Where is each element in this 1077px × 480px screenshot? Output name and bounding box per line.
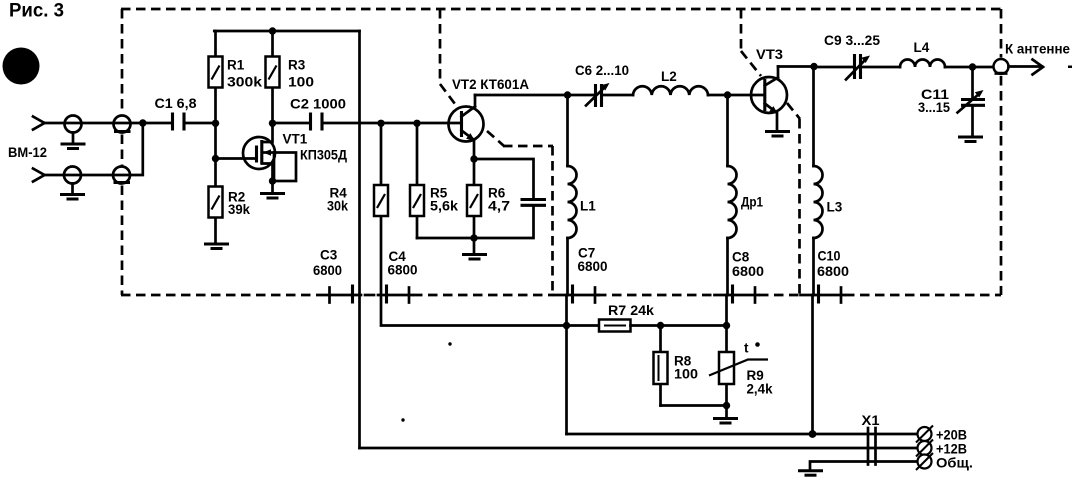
node R5 top bbox=[413, 120, 420, 127]
capacitor C10 6800 (feedthrough) bbox=[801, 249, 850, 304]
resistor R7 24k bbox=[567, 303, 727, 332]
ground bbox=[798, 471, 823, 476]
svg-text:R1: R1 bbox=[227, 58, 245, 73]
node collector tank bbox=[564, 91, 571, 98]
wire R8/R9 bottom bbox=[661, 406, 727, 417]
wire VT3 collector bbox=[778, 65, 814, 68]
node VT2 emitter bbox=[470, 155, 477, 162]
svg-text:100: 100 bbox=[674, 367, 698, 382]
wire R5/R6 common to ground bbox=[417, 238, 474, 252]
resistor R1 300k bbox=[209, 31, 263, 123]
speck bbox=[1068, 66, 1072, 69]
speck bbox=[448, 342, 451, 345]
wire gate branch bbox=[216, 157, 257, 160]
transistor VT3 bbox=[751, 47, 787, 129]
capacitor C11 3...15 (trimmer) bbox=[918, 67, 985, 135]
terminal +20В bbox=[916, 426, 967, 443]
svg-text:VT2 КТ601А: VT2 КТ601А bbox=[452, 77, 529, 92]
svg-text:L3: L3 bbox=[827, 200, 843, 215]
svg-text:С1 6,8: С1 6,8 bbox=[155, 96, 198, 111]
shield enclosure (outer dashed box) bbox=[121, 9, 1001, 295]
ground bbox=[958, 137, 983, 142]
resistor R5 5,6k bbox=[410, 123, 459, 238]
wire +12V bus bbox=[360, 447, 918, 450]
node emitter network ground bbox=[470, 234, 477, 241]
svg-text:С9 3...25: С9 3...25 bbox=[824, 33, 880, 48]
ground bbox=[462, 255, 487, 260]
svg-text:ВМ-12: ВМ-12 bbox=[8, 144, 47, 160]
capacitor C3 6800 (feedthrough) bbox=[313, 248, 361, 304]
node rail/R3 bbox=[269, 27, 276, 34]
ground bbox=[765, 132, 790, 137]
svg-text:Др1: Др1 bbox=[741, 195, 763, 210]
svg-text:3...15: 3...15 bbox=[918, 100, 950, 115]
connector socket top-left bbox=[65, 116, 82, 143]
node collector output bbox=[810, 63, 817, 70]
svg-text:100: 100 bbox=[288, 75, 314, 90]
inductor L2 bbox=[633, 69, 728, 95]
shield partition through VT3 (dashed) bbox=[741, 9, 800, 295]
wire common bus bbox=[810, 462, 918, 470]
wire R4 column to R7 node bbox=[381, 295, 567, 326]
svg-text:6800: 6800 bbox=[732, 264, 764, 279]
node B (drain/R3/C2) bbox=[269, 120, 276, 127]
transistor VT2 КТ601А bbox=[449, 77, 530, 159]
svg-text:Общ.: Общ. bbox=[936, 456, 973, 471]
inductor L3 bbox=[813, 67, 843, 435]
capacitor C7 6800 (feedthrough) bbox=[555, 246, 608, 304]
wire +12V rail (top) bbox=[214, 30, 359, 33]
resistor R4 30k bbox=[327, 123, 388, 295]
node gate branch bbox=[212, 155, 219, 162]
ground bbox=[713, 419, 738, 424]
node source bbox=[269, 177, 276, 184]
capacitor C8 6800 (feedthrough) bbox=[715, 250, 765, 304]
svg-text:L2: L2 bbox=[661, 69, 677, 84]
terminal +12В bbox=[916, 440, 967, 457]
shield partition through VT2 (dashed) bbox=[440, 9, 553, 295]
terminal Общ. bbox=[916, 453, 973, 471]
svg-text:5,6k: 5,6k bbox=[430, 199, 459, 214]
svg-text:30k: 30k bbox=[327, 199, 348, 214]
svg-text:С3: С3 bbox=[320, 248, 338, 263]
svg-text:6800: 6800 bbox=[817, 264, 849, 279]
svg-text:R7 24k: R7 24k bbox=[608, 303, 655, 318]
connector plug bottom-right bbox=[113, 167, 130, 184]
svg-text:VT1: VT1 bbox=[283, 132, 308, 147]
svg-text:R3: R3 bbox=[288, 58, 306, 73]
resistor R6 4,7 bbox=[467, 159, 510, 238]
node input junction bbox=[139, 119, 146, 126]
svg-text:КП305Д: КП305Д bbox=[300, 148, 347, 163]
node R8 top bbox=[657, 322, 664, 329]
node C11 tap bbox=[969, 63, 976, 70]
wire +20V bus bbox=[567, 433, 918, 436]
connector socket bottom-left bbox=[64, 167, 81, 194]
capacitor C2 1000 bbox=[273, 97, 462, 131]
svg-text:4,7: 4,7 bbox=[488, 199, 510, 214]
speck bbox=[401, 418, 404, 421]
thermistor R9 2,4k bbox=[709, 326, 773, 406]
ground bbox=[60, 195, 85, 200]
connector X1 bbox=[862, 413, 881, 465]
capacitor C4 6800 (feedthrough) bbox=[365, 249, 418, 304]
svg-text:VT3: VT3 bbox=[756, 47, 784, 62]
node L3 column on +20V bus bbox=[809, 430, 817, 438]
transistor VT1 КП305Д bbox=[243, 123, 347, 181]
capacitor C1 6,8 bbox=[143, 96, 216, 131]
inductor L4 bbox=[900, 40, 994, 67]
node R9 top bbox=[723, 322, 730, 329]
node R9 ground bbox=[723, 402, 730, 409]
input arrow top bbox=[33, 117, 45, 130]
resistor R8 100 bbox=[654, 326, 699, 406]
ground bbox=[61, 144, 86, 149]
svg-text:6800: 6800 bbox=[578, 259, 608, 274]
svg-text:С10: С10 bbox=[818, 249, 841, 264]
input arrow bottom bbox=[33, 169, 45, 182]
ground bbox=[204, 244, 229, 249]
svg-text:L1: L1 bbox=[580, 199, 596, 214]
wire C7 column down to +20V bus bbox=[565, 295, 568, 434]
inductor Др1 (choke) bbox=[727, 95, 764, 326]
svg-text:К антенне: К антенне bbox=[1005, 42, 1070, 57]
svg-text:2,4k: 2,4k bbox=[747, 382, 773, 397]
resistor R2 39k bbox=[209, 123, 251, 242]
wire input bottom bbox=[45, 123, 143, 175]
node R7 left bbox=[563, 322, 570, 329]
inductor L1 bbox=[568, 95, 597, 295]
svg-text:t: t bbox=[744, 341, 749, 356]
wire VT2 collector bbox=[475, 94, 568, 97]
svg-text:6800: 6800 bbox=[313, 263, 342, 278]
wire base bbox=[728, 94, 765, 97]
svg-text:С8: С8 bbox=[732, 250, 750, 265]
capacitor C6 2...10 (trimmer) bbox=[568, 63, 634, 107]
wire source to ground bbox=[271, 181, 274, 192]
connector plug top-right bbox=[114, 116, 131, 133]
node R4 top bbox=[377, 120, 384, 127]
svg-text:300k: 300k bbox=[227, 75, 263, 90]
black dot (scan mark) bbox=[3, 48, 40, 85]
svg-text:+20В: +20В bbox=[936, 428, 967, 443]
svg-text:С6 2...10: С6 2...10 bbox=[575, 63, 629, 78]
capacitor (emitter bypass, unlabeled) bbox=[474, 159, 546, 238]
node VT3 base / Др1 bbox=[724, 91, 731, 98]
wire 12V column to bottom bus bbox=[358, 31, 361, 448]
svg-text:X1: X1 bbox=[862, 413, 881, 428]
svg-text:Рис. 3: Рис. 3 bbox=[9, 1, 64, 22]
resistor R3 100 bbox=[266, 31, 315, 123]
svg-text:39k: 39k bbox=[228, 202, 250, 217]
wire input top bbox=[45, 122, 143, 125]
svg-text:6800: 6800 bbox=[388, 263, 418, 278]
capacitor C9 3...25 (trimmer) bbox=[814, 33, 900, 80]
svg-text:+12В: +12В bbox=[936, 442, 967, 457]
node A (R1/R2/gate) bbox=[212, 120, 219, 127]
svg-text:L4: L4 bbox=[914, 40, 930, 55]
output connector (to antenna) bbox=[994, 42, 1071, 75]
ground bbox=[260, 194, 285, 199]
svg-text:С2 1000: С2 1000 bbox=[290, 97, 346, 112]
